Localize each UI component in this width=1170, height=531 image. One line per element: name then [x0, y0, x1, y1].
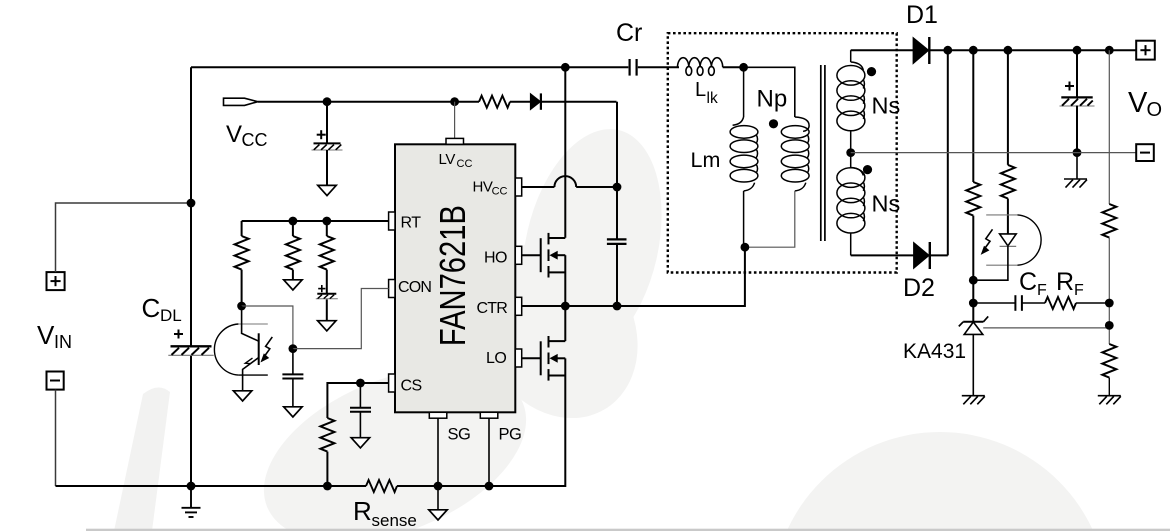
svg-text:Ns: Ns: [872, 93, 901, 119]
svg-text:CTR: CTR: [477, 300, 508, 317]
svg-text:C: C: [1019, 268, 1037, 296]
svg-text:CC: CC: [457, 158, 473, 170]
optocoupler U2 LED: [981, 215, 1041, 265]
node VCC cap: [323, 97, 332, 106]
svg-text:CS: CS: [401, 378, 422, 395]
transistor Q1 (high side): [541, 233, 566, 278]
wire output + rail: [929, 49, 1136, 51]
ground divider: [1098, 396, 1121, 405]
node CS: [356, 379, 365, 388]
svg-text:CC: CC: [492, 185, 508, 197]
pin stub CTR: [515, 297, 521, 315]
node D1/D2 link: [943, 46, 952, 55]
svg-text:LO: LO: [486, 350, 506, 367]
capacitor CDL: [168, 330, 213, 356]
wire LO gate: [522, 357, 541, 359]
resistor LED series: [1001, 50, 1015, 234]
node VIN+ junction: [187, 199, 196, 208]
svg-text:PG: PG: [499, 426, 522, 444]
node tank top: [739, 63, 748, 72]
node RF join: [1105, 299, 1114, 308]
svg-text:D2: D2: [903, 274, 935, 302]
resistor bootstrap: [479, 96, 510, 108]
shunt regulator KA431: [959, 316, 988, 395]
capacitor CON: [282, 349, 303, 407]
IC body U1: [395, 144, 515, 412]
ground CON cap: [284, 407, 302, 417]
pin stub PG: [480, 412, 498, 418]
pin stub HVcc: [515, 178, 521, 196]
watermark band left: [114, 387, 170, 531]
label VO: [1128, 87, 1162, 121]
svg-text:FAN7621B: FAN7621B: [432, 205, 473, 346]
wire HO gate: [522, 254, 541, 256]
svg-text:O: O: [1147, 99, 1163, 121]
wire Ns top to D1: [851, 49, 913, 51]
node divider top: [1105, 46, 1114, 55]
svg-text:LV: LV: [439, 151, 456, 168]
wire CTR: [522, 247, 745, 306]
watermark blob bottom right: [772, 432, 1108, 531]
label VIN: [37, 320, 72, 352]
label LVcc pin: [439, 151, 473, 170]
ground output: [1064, 153, 1087, 188]
ground SG arrow: [429, 486, 447, 520]
node top rail to half bridge: [561, 63, 570, 72]
node fb resistor top: [969, 46, 978, 55]
wire collector to CON node: [242, 306, 293, 349]
node ref join: [1105, 321, 1114, 330]
svg-text:HO: HO: [484, 249, 507, 266]
wire Np bottom: [745, 191, 795, 247]
capacitor half-bridge: [607, 187, 627, 306]
watermark blob center upper: [501, 115, 683, 375]
transformer core: [821, 65, 825, 241]
pin stub SG: [429, 412, 447, 418]
svg-text:IN: IN: [54, 332, 72, 352]
node output cap minus rail: [1073, 148, 1082, 157]
phase dot Np: [769, 119, 778, 128]
svg-text:F: F: [1037, 282, 1047, 299]
ground soft-start: [318, 321, 336, 331]
label RF: [1056, 268, 1084, 299]
svg-text:sense: sense: [372, 511, 417, 530]
capacitor output (electrolytic): [1060, 50, 1095, 152]
node LED branch top: [1004, 46, 1013, 55]
label HVcc pin: [473, 179, 508, 198]
svg-text:CC: CC: [242, 130, 268, 150]
wire LED cathode to node: [973, 246, 1008, 280]
wire KA431 ref: [983, 327, 1109, 329]
wire top rail: [191, 66, 628, 68]
phase dot Ns top: [867, 67, 876, 76]
svg-text:CON: CON: [398, 279, 431, 296]
wire VIN+ to bus: [56, 203, 192, 272]
resistor Rsense: [366, 480, 397, 492]
wire Ns bottom to D2: [851, 254, 914, 256]
wire top to Np: [744, 67, 795, 117]
label VCC: [226, 121, 268, 150]
svg-text:V: V: [1128, 87, 1148, 119]
wire Q1 source to CTR: [564, 255, 566, 306]
node RT r2: [289, 217, 298, 226]
capacitor Cr: [630, 59, 637, 76]
winding Np: [781, 117, 809, 191]
wire DC link vertical: [190, 67, 192, 346]
svg-text:L: L: [695, 79, 706, 101]
svg-text:C: C: [142, 293, 161, 323]
svg-text:SG: SG: [448, 426, 471, 444]
node CTR cap: [613, 302, 622, 311]
svg-text:Ns: Ns: [872, 191, 901, 217]
wire diode to HVcc node: [616, 102, 618, 187]
label CDL: [142, 293, 182, 325]
VCC tag: [224, 98, 258, 105]
node HVcc cap: [613, 183, 622, 192]
pin stub LO: [515, 349, 521, 367]
wire VIN- down: [55, 390, 57, 486]
node output cap: [1073, 46, 1082, 55]
pin stub HO: [515, 246, 521, 264]
resistor Rmax: [286, 221, 300, 280]
ground CS cap: [351, 438, 369, 448]
resistor CS divider: [320, 418, 334, 486]
node SG: [434, 482, 443, 491]
node CON: [289, 344, 298, 353]
capacitor soft-start (electrolytic): [316, 285, 338, 321]
ground Rmax: [284, 280, 302, 290]
capacitor VCC (electrolytic): [312, 130, 343, 150]
svg-text:R: R: [353, 496, 372, 526]
wire bottom ground rail: [56, 485, 367, 487]
ground opto emitter: [233, 391, 251, 401]
wire CON: [293, 289, 389, 349]
phase dot Ns bottom: [863, 165, 872, 174]
pin stub CS: [389, 374, 395, 392]
watermark blob center lower: [239, 333, 552, 531]
node LVcc branch: [450, 97, 459, 106]
ground primary 3-bar: [182, 486, 201, 517]
resistor divider lower: [1102, 344, 1116, 396]
svg-text:V: V: [37, 320, 55, 350]
pin stub RT: [389, 212, 395, 230]
svg-text:Cr: Cr: [616, 19, 642, 47]
wire half-bridge high drain: [564, 67, 566, 238]
transistor Q2 (low side): [541, 336, 566, 381]
svg-text:DL: DL: [160, 306, 182, 325]
node CF branch: [969, 299, 978, 308]
wire SG: [437, 418, 439, 486]
inductor Lm: [730, 67, 758, 247]
wire VCC rail: [258, 101, 479, 103]
ground KA431: [962, 396, 985, 405]
pin stub LVcc: [446, 138, 464, 144]
terminal VO-: [1136, 144, 1154, 161]
wire Q2 drain: [564, 306, 566, 341]
svg-text:Lm: Lm: [691, 148, 721, 172]
label CF: [1019, 268, 1047, 299]
node PG: [485, 482, 494, 491]
wire PG: [488, 418, 490, 486]
pin stub CON: [389, 280, 395, 298]
wire HVcc: [522, 176, 617, 187]
label Rsense: [353, 496, 417, 530]
capacitor CF + resistor RF: [973, 295, 1109, 311]
terminal VIN-: [47, 372, 64, 390]
wire CS: [327, 383, 388, 418]
node center tap: [846, 148, 855, 157]
resistor Rmin: [235, 221, 249, 306]
diode bootstrap: [510, 93, 617, 109]
winding Ns bottom: [837, 153, 865, 256]
svg-text:R: R: [1056, 268, 1074, 296]
tank dashed box: [668, 33, 897, 272]
diode D2: [914, 242, 948, 269]
node CS res rail: [323, 482, 332, 491]
capacitor CS filter: [350, 383, 371, 438]
diode D1: [913, 37, 929, 64]
svg-text:lk: lk: [707, 90, 718, 107]
terminal VIN+: [47, 272, 65, 290]
resistor opto bias upper: [966, 50, 980, 322]
node CTR q1: [561, 302, 570, 311]
node KA431 cathode top: [969, 276, 978, 285]
svg-text:F: F: [1074, 282, 1084, 299]
terminal VO+: [1136, 41, 1155, 60]
node tank bottom: [741, 243, 750, 252]
wire D1-D2 vertical: [947, 50, 949, 255]
node opto collector: [237, 302, 246, 311]
inductor Llk: [678, 58, 744, 76]
wire RT: [242, 220, 389, 222]
svg-text:D1: D1: [906, 1, 938, 29]
label Llk: [695, 79, 718, 107]
winding Ns top: [837, 50, 865, 152]
node ground rail / CDL: [187, 482, 196, 491]
svg-text:KA431: KA431: [903, 340, 966, 363]
optocoupler U2 phototransistor: [214, 306, 272, 391]
svg-text:RT: RT: [401, 214, 422, 231]
ground VCC cap: [318, 185, 336, 195]
svg-text:V: V: [226, 121, 242, 148]
wire VCC cap branch: [326, 102, 328, 144]
svg-text:Np: Np: [757, 86, 788, 113]
svg-text:HV: HV: [473, 179, 493, 196]
resistor soft-start: [320, 221, 334, 294]
wire LVcc branch: [454, 102, 456, 139]
node RT r3: [322, 217, 331, 226]
bottom gray border: [86, 529, 1170, 531]
resistor divider upper: [1102, 50, 1116, 344]
wire minus rail: [851, 152, 1136, 154]
wire cap to ground: [326, 150, 328, 185]
